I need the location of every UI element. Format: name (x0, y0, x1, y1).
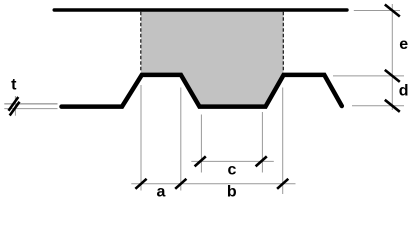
svg-text:e: e (399, 36, 408, 53)
extension line a-right/b-left (x=180.8) (180, 88, 182, 191)
extension line a-left (x=141) (140, 85, 142, 191)
t dimension: upper thin line (4, 103, 57, 105)
a/b tick at x=180.8 (175, 179, 186, 189)
tick at top line level (385, 5, 400, 17)
extension line c-right (x=262.4) (261, 112, 263, 173)
a/b tick at x=141 (135, 179, 146, 189)
svg-text:c: c (228, 162, 237, 179)
d extension line bottom (352, 105, 404, 107)
tick at flange level (385, 70, 400, 82)
b tick at x=282.7 (277, 179, 288, 189)
c dimension line (191, 160, 273, 162)
t tick slash lower (10, 102, 20, 116)
t dimension: lower thin line (4, 108, 57, 110)
svg-text:d: d (399, 83, 409, 100)
tick at bottom level (385, 100, 400, 112)
svg-text:b: b (227, 184, 237, 201)
b dimension line (131, 183, 295, 185)
c tick right (256, 156, 267, 166)
c tick left (195, 156, 206, 166)
svg-text:t: t (11, 76, 17, 93)
extension line b-right (x=282.7) (282, 88, 284, 195)
d extension line top (flange level) (333, 75, 404, 77)
right vertical dimension line (391, 4, 393, 110)
t dimension: vertical tick line (14, 96, 16, 116)
top slab line (54, 8, 347, 11)
dashed boundary left (140, 12, 142, 72)
svg-text:a: a (157, 184, 166, 201)
t tick slash upper (9, 97, 19, 111)
extension line c-left (x=201.4) (200, 115, 202, 173)
shaded concrete region (141, 12, 283, 107)
steel deck profile (62, 75, 342, 107)
e extension line top (354, 10, 400, 12)
dashed boundary right (282, 12, 284, 72)
